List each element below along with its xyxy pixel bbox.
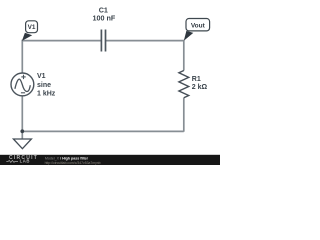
- C1 labels: [93, 6, 116, 23]
- svg-text:V1: V1: [37, 73, 46, 80]
- junction node dot: [20, 129, 24, 133]
- wire bottom horizontal: [22, 130, 184, 132]
- wire top left horizontal: [22, 40, 102, 42]
- svg-text:2 kΩ: 2 kΩ: [192, 84, 208, 91]
- svg-text:100 nF: 100 nF: [93, 14, 116, 23]
- ground: [13, 139, 31, 149]
- wire left vertical lower: [21, 96, 23, 132]
- node flag V1 pointer: [22, 33, 32, 41]
- resistor R1: [179, 71, 189, 98]
- capacitor C1: [101, 30, 105, 52]
- node flag V1 box: [26, 21, 38, 33]
- V1 value labels: [37, 73, 56, 97]
- svg-text:R1: R1: [192, 76, 201, 83]
- svg-text:Model_X / High pass filter: Model_X / High pass filter: [45, 156, 89, 160]
- wire right vertical lower: [183, 98, 185, 132]
- R1 value labels: [192, 76, 208, 91]
- wire left vertical upper: [21, 40, 23, 74]
- svg-text:Vout: Vout: [191, 22, 206, 29]
- svg-text:http://circuitlab.com/c/347v53: http://circuitlab.com/c/347v53a7mynb: [45, 161, 101, 165]
- wire top right horizontal: [106, 40, 184, 42]
- footer bar background: [0, 155, 220, 165]
- wire right vertical upper: [183, 40, 185, 71]
- node flag Vout pointer: [184, 31, 194, 41]
- svg-text:LAB: LAB: [20, 159, 30, 164]
- svg-text:sine: sine: [37, 82, 51, 89]
- svg-text:1 kHz: 1 kHz: [37, 91, 56, 98]
- ground stem wire: [21, 131, 23, 139]
- footer logo zigzag: [6, 160, 18, 162]
- node flag Vout box: [186, 19, 210, 31]
- voltage source V1: [11, 73, 34, 96]
- svg-text:V1: V1: [28, 24, 36, 31]
